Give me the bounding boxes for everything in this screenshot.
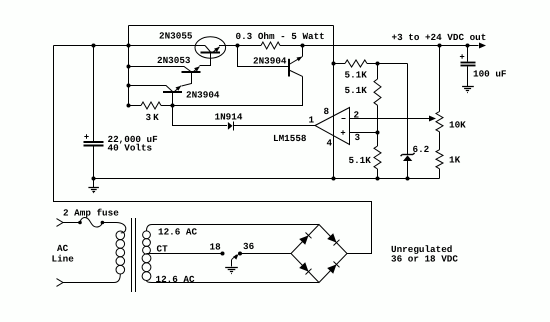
svg-text:Line: Line (52, 254, 75, 265)
svg-text:40 Volts: 40 Volts (108, 143, 153, 154)
svg-text:2 Amp fuse: 2 Amp fuse (63, 208, 119, 219)
svg-text:18: 18 (210, 242, 222, 253)
svg-text:36 or 18 VDC: 36 or 18 VDC (391, 253, 458, 264)
svg-text:5.1K: 5.1K (349, 155, 372, 166)
svg-text:3: 3 (355, 132, 361, 143)
svg-text:AC: AC (57, 243, 69, 254)
svg-text:100 uF: 100 uF (473, 69, 507, 80)
svg-text:4: 4 (327, 138, 333, 149)
svg-text:2N3904: 2N3904 (253, 56, 287, 67)
svg-text:2N3053: 2N3053 (157, 55, 191, 66)
svg-text:36: 36 (243, 241, 255, 252)
svg-text:1K: 1K (449, 155, 461, 166)
svg-text:12.6 AC: 12.6 AC (158, 227, 197, 238)
svg-text:2: 2 (354, 110, 360, 121)
svg-text:6.2: 6.2 (413, 144, 430, 155)
svg-text:1: 1 (309, 114, 315, 125)
svg-text:2N3055: 2N3055 (159, 31, 193, 42)
svg-text:CT: CT (157, 244, 169, 255)
svg-text:5.1K: 5.1K (345, 70, 368, 81)
svg-text:10K: 10K (449, 120, 466, 131)
svg-text:0.3 Ohm - 5 Watt: 0.3 Ohm - 5 Watt (236, 31, 325, 42)
svg-text:3K: 3K (146, 112, 161, 123)
svg-text:+3 to +24 VDC out: +3 to +24 VDC out (392, 32, 487, 43)
svg-text:2N3904: 2N3904 (186, 90, 220, 101)
svg-text:1N914: 1N914 (215, 112, 243, 123)
svg-text:8: 8 (324, 106, 330, 117)
svg-text:LM1558: LM1558 (273, 133, 307, 144)
svg-text:5.1K: 5.1K (345, 85, 368, 96)
svg-text:12.6 AC: 12.6 AC (156, 274, 195, 285)
